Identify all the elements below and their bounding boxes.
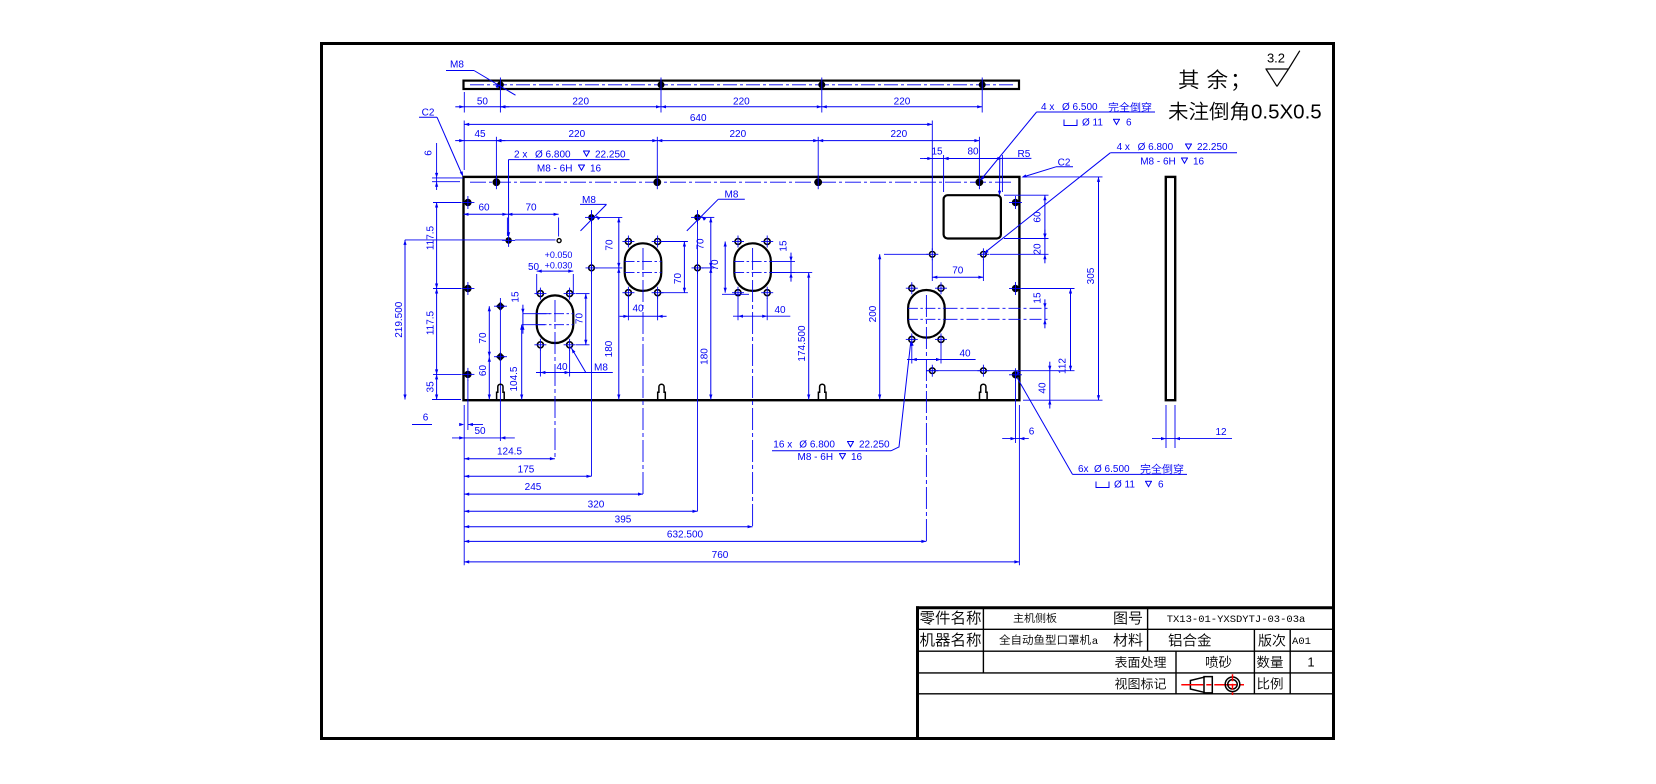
dimension 245 <box>464 482 643 496</box>
small diamond holes x=500.4 <box>494 298 507 441</box>
dimension 6 top-left <box>424 143 464 190</box>
bottom edge tapped hole notches <box>497 384 987 400</box>
svg-text:Ø 6.800: Ø 6.800 <box>1138 142 1174 153</box>
title row1: part name label <box>920 610 981 624</box>
svg-text:6: 6 <box>1126 117 1132 128</box>
title row2: machine name label <box>920 632 981 646</box>
title row4: view mark label <box>1115 678 1166 690</box>
svg-text:220: 220 <box>733 96 750 107</box>
svg-text:70: 70 <box>710 259 721 271</box>
svg-text:50: 50 <box>474 426 486 437</box>
svg-text:220: 220 <box>890 129 907 140</box>
dimension 174.500 <box>771 273 812 400</box>
obround slot 4 centerlines <box>908 308 945 319</box>
title row2: version label <box>1258 634 1285 647</box>
svg-text:M8 - 6H: M8 - 6H <box>1140 156 1176 167</box>
svg-text:a: a <box>1092 635 1098 647</box>
svg-text:22.250: 22.250 <box>595 149 626 160</box>
dimension 220 row2 (3) <box>818 129 979 176</box>
dimension 80 top-right <box>944 147 1003 193</box>
dimension 70 obround3 corner holes <box>710 242 749 295</box>
title row2: machine name value <box>999 634 1098 647</box>
svg-text:15: 15 <box>1032 292 1043 304</box>
top view dimension 50 <box>455 92 509 113</box>
top view M8 label and leader <box>446 60 516 96</box>
svg-text:50: 50 <box>528 262 540 273</box>
svg-text:70: 70 <box>696 238 707 250</box>
callout 6x dia6.5 counterbore right <box>1016 371 1187 490</box>
dimension 35 <box>426 374 461 399</box>
svg-text:40: 40 <box>774 305 786 316</box>
title row3: quantity label <box>1257 656 1283 668</box>
svg-text:16: 16 <box>590 163 602 174</box>
callout 4x dia6.5 counterbore top-right <box>980 102 1155 181</box>
svg-text:50: 50 <box>477 96 489 107</box>
obround slot 3 centerlines <box>734 262 771 273</box>
svg-text:305: 305 <box>1086 267 1097 284</box>
title block horizontal lines <box>918 629 1334 694</box>
M8 leader label at hole x=591.5 <box>580 195 607 231</box>
side view dimension 12 <box>1152 405 1232 448</box>
surface roughness symbol 3.2 <box>1265 50 1299 86</box>
title block outer border <box>916 606 1333 739</box>
svg-text:35: 35 <box>426 381 437 393</box>
note: unmarked chamfer 0.5X0.5 <box>1169 100 1322 123</box>
obround 4 extended centerlines <box>946 308 1049 319</box>
top view plate strip outline <box>464 81 1020 89</box>
svg-text:45: 45 <box>474 129 486 140</box>
svg-text:320: 320 <box>588 499 605 510</box>
dimension 200 <box>868 254 928 399</box>
dimension 220 row2 (1) <box>496 129 657 176</box>
svg-text:+0.030: +0.030 <box>545 260 573 270</box>
svg-text:60: 60 <box>1032 211 1043 223</box>
C2 chamfer label top-left <box>419 107 463 176</box>
obround slot 2 corner M8 holes <box>622 236 663 299</box>
svg-text:174.500: 174.500 <box>797 325 808 362</box>
dimension 15 top-right <box>920 147 953 193</box>
side view plate strip <box>1166 177 1175 400</box>
title row1: drawing number label <box>1114 612 1142 625</box>
right edge tapped holes <box>1009 196 1022 381</box>
svg-text:22.250: 22.250 <box>859 440 890 451</box>
interior M8 holes x=591.5 <box>585 211 598 274</box>
dimension 40 obround3 <box>733 298 790 320</box>
dimension 117.5 (lower) <box>426 289 439 375</box>
dimension 124.5 <box>464 447 555 461</box>
svg-text:40: 40 <box>556 362 568 373</box>
svg-text:6: 6 <box>1158 479 1164 490</box>
svg-text:70: 70 <box>478 332 489 344</box>
dimension 60 cutout height <box>1032 195 1046 238</box>
dimension 112 <box>1058 289 1073 374</box>
top view M8 tapped holes <box>497 78 985 93</box>
dimension 50 with tolerance +0.050/+0.030 <box>528 250 573 295</box>
obround slot 4 outline <box>908 290 945 338</box>
dimension 117.5 (upper) <box>426 203 439 289</box>
left edge tapped holes <box>433 196 474 381</box>
interior holes bottom-right pair <box>926 365 990 377</box>
drawing sheet frame <box>322 44 1334 739</box>
svg-text:640: 640 <box>690 113 707 124</box>
svg-text:M8 - 6H: M8 - 6H <box>537 163 573 174</box>
callout 2x dia6.8 tapped <box>507 149 630 237</box>
svg-text:3.2: 3.2 <box>1267 50 1285 65</box>
title row1: part name value <box>1014 613 1057 623</box>
title block vertical lines <box>983 608 1290 694</box>
svg-text:200: 200 <box>868 305 879 322</box>
svg-text:70: 70 <box>525 202 537 213</box>
dimension 40 obround1 <box>536 349 613 377</box>
dimension 219.500 <box>394 240 505 400</box>
svg-text:70: 70 <box>952 265 964 276</box>
dimension 70 top-left <box>507 202 558 236</box>
dimension 50 bottom-left <box>452 426 515 439</box>
dimension 180 obround2 column <box>604 268 621 400</box>
top view dimension 220 (1) <box>500 92 661 113</box>
svg-text:117.5: 117.5 <box>426 225 437 250</box>
svg-text:245: 245 <box>525 482 542 493</box>
interior holes top-right pair <box>926 248 989 260</box>
svg-text:15: 15 <box>510 291 521 303</box>
obround slot 1 outline <box>537 295 574 343</box>
dimension 60 top-left <box>464 202 508 236</box>
dimension 40 bottom-right <box>1037 362 1051 409</box>
svg-text:180: 180 <box>604 340 615 357</box>
svg-text:220: 220 <box>894 96 911 107</box>
svg-text:22.250: 22.250 <box>1197 142 1228 153</box>
svg-text:1: 1 <box>1307 655 1314 670</box>
svg-text:80: 80 <box>967 147 979 158</box>
dimension 180 M8 column x=697.5 <box>699 268 712 400</box>
title row2: material label <box>1113 633 1142 647</box>
dimension 632.500 <box>464 529 926 543</box>
dimension 60 diamond holes <box>478 357 491 400</box>
right side extension lines <box>990 177 1103 400</box>
title row2: version value <box>1292 636 1311 648</box>
svg-text:M8: M8 <box>594 363 608 374</box>
dimension 6 bottom-right <box>1002 380 1035 565</box>
obround slot 3 corner M8 holes <box>732 236 773 299</box>
top view dimension 220 (3) <box>822 92 982 113</box>
svg-text:12: 12 <box>1215 427 1227 438</box>
svg-text:Ø 6.800: Ø 6.800 <box>535 149 571 160</box>
svg-text:220: 220 <box>572 96 589 107</box>
svg-text:180: 180 <box>699 348 710 365</box>
dimension 70 diamond holes <box>478 306 491 357</box>
R5 radius label <box>998 149 1031 196</box>
M8 hole column extension lines <box>592 210 698 511</box>
svg-text:M8 - 6H: M8 - 6H <box>798 452 834 463</box>
dimension 640 <box>464 113 932 250</box>
dimension 15 obround4 centerlines <box>1032 292 1046 328</box>
svg-text:70: 70 <box>673 273 684 285</box>
title row3: surface treatment label <box>1115 656 1166 668</box>
title row3: surface treatment value <box>1206 656 1231 668</box>
dimension 40 obround2 <box>619 296 666 320</box>
obround slot 3 outline <box>734 243 771 291</box>
title row2: material value <box>1169 633 1212 646</box>
svg-text:60: 60 <box>478 365 489 377</box>
svg-text:219.500: 219.500 <box>394 301 405 338</box>
obround slot 2 outline <box>625 243 662 291</box>
svg-text:+0.050: +0.050 <box>545 250 573 260</box>
svg-text:2 x: 2 x <box>514 149 527 160</box>
top view dimension 220 (2) <box>661 92 822 113</box>
obround slot 4 corner M8 holes <box>906 282 947 345</box>
svg-text:40: 40 <box>1037 382 1048 394</box>
dimension 70 obround2 corner holes <box>661 242 688 293</box>
dimension 70 M8 column x=697.5 <box>696 217 715 268</box>
svg-text:15: 15 <box>779 240 790 252</box>
svg-text:395: 395 <box>615 515 632 526</box>
obround slot vertical centerlines <box>555 248 926 541</box>
C2 chamfer label top-right <box>1021 157 1073 177</box>
svg-text:M8: M8 <box>450 60 464 71</box>
svg-text:70: 70 <box>574 313 585 325</box>
rectangular cutout with R5 corners <box>944 195 1001 238</box>
countersunk holes 4x dia6.5 top row <box>493 175 983 189</box>
callout 16x dia6.8 tapped bottom <box>772 341 914 463</box>
obround slot 1 centerlines <box>537 314 574 325</box>
dimension 70 M8 column x=591.5 <box>596 217 622 268</box>
dimension 175 <box>464 464 591 478</box>
obround slot 2 centerlines <box>625 262 662 273</box>
svg-text:20: 20 <box>1032 243 1043 255</box>
svg-text:6x: 6x <box>1078 464 1089 475</box>
svg-text:C2: C2 <box>422 107 435 118</box>
svg-text:6: 6 <box>1029 427 1035 438</box>
title row4: projection symbol <box>1181 674 1244 695</box>
svg-text:Ø 6.800: Ø 6.800 <box>799 440 835 451</box>
title row3: quantity value <box>1307 655 1314 670</box>
svg-text:104.5: 104.5 <box>509 366 520 391</box>
svg-text:60: 60 <box>478 202 490 213</box>
svg-text:Ø 11: Ø 11 <box>1114 479 1135 490</box>
interior M8 holes x=697.5 <box>691 211 704 274</box>
svg-text:117.5: 117.5 <box>426 310 437 335</box>
dimension 320 <box>464 499 697 513</box>
svg-text:16: 16 <box>851 452 863 463</box>
main view plate outline <box>464 177 1020 400</box>
dowel hole pair top-left <box>502 234 561 247</box>
svg-text:175: 175 <box>518 464 535 475</box>
svg-text:124.5: 124.5 <box>497 447 522 458</box>
svg-text:6: 6 <box>423 413 429 424</box>
dimension 20 cutout to holes <box>1032 230 1046 264</box>
dimension 305 <box>1086 177 1100 400</box>
svg-text:16: 16 <box>1193 156 1205 167</box>
dimension 220 row2 (2) <box>657 129 818 176</box>
dimension 45 <box>455 129 505 176</box>
note: surface roughness others <box>1179 69 1237 91</box>
obround slot 1 corner M8 holes <box>534 288 575 351</box>
dimension 15 obround1 centerlines <box>510 291 550 334</box>
svg-text:0.5X0.5: 0.5X0.5 <box>1251 100 1322 123</box>
M8 leader label at hole x=697.5 <box>687 190 745 231</box>
svg-text:Ø 11: Ø 11 <box>1082 117 1103 128</box>
svg-text:15: 15 <box>931 147 943 158</box>
dimension 6 bottom-left <box>412 380 483 565</box>
svg-text:760: 760 <box>712 550 729 561</box>
svg-text:4 x: 4 x <box>1117 142 1130 153</box>
dimension 15 obround2-3 centerlines <box>771 240 795 282</box>
svg-text:6: 6 <box>424 150 435 156</box>
svg-text:40: 40 <box>959 349 971 360</box>
svg-text:40: 40 <box>632 304 644 315</box>
svg-text:16 x: 16 x <box>773 440 792 451</box>
svg-text:A01: A01 <box>1292 636 1311 648</box>
svg-text:112: 112 <box>1058 358 1069 374</box>
callout 4x dia6.8 tapped top-right <box>984 142 1237 254</box>
svg-text:70: 70 <box>605 239 616 251</box>
dimension 70 obround1 corner holes <box>574 294 589 345</box>
svg-text:632.500: 632.500 <box>667 529 704 540</box>
dimension 40 obround4 <box>907 343 976 364</box>
dimension 760 <box>464 550 1019 564</box>
M8 label obround1 <box>571 347 609 374</box>
dimension 395 <box>464 515 752 529</box>
svg-text:TX13-01-YXSDYTJ-03-03a: TX13-01-YXSDYTJ-03-03a <box>1167 614 1306 626</box>
title row4: scale label <box>1258 677 1283 689</box>
top hole row centerline <box>470 181 1013 183</box>
svg-text:Ø 6.500: Ø 6.500 <box>1094 464 1130 475</box>
svg-text:220: 220 <box>568 129 585 140</box>
dimension 104.5 <box>509 325 545 400</box>
dimension 70 top-right pair <box>932 259 983 281</box>
top view centerline <box>470 84 1013 86</box>
svg-text:220: 220 <box>729 129 746 140</box>
title row1: drawing number value <box>1167 614 1306 626</box>
